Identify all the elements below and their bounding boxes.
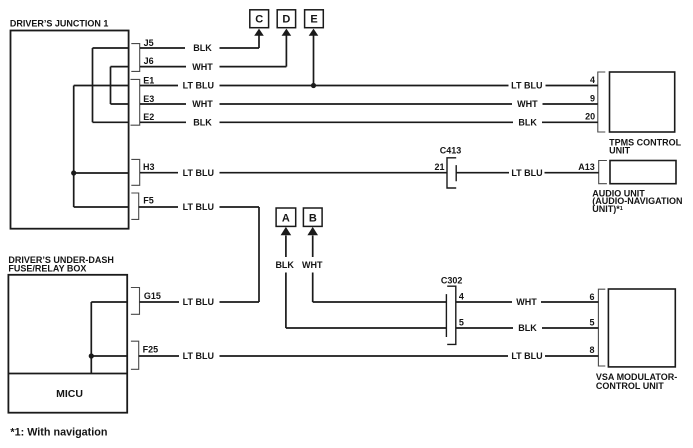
svg-text:F25: F25 (143, 345, 159, 355)
wire C413 to audio A13 (456, 172, 599, 174)
bracket pin G15 (131, 288, 140, 315)
svg-text:UNIT)*1: UNIT)*1 (592, 204, 623, 214)
svg-text:LT BLU: LT BLU (183, 202, 214, 212)
connector box A (276, 208, 296, 226)
svg-text:C: C (255, 14, 263, 26)
wire C302 pin 4 WHT to VSA 6 (456, 301, 599, 303)
wire E3 WHT to TPMS 9 (140, 103, 598, 105)
svg-text:C413: C413 (440, 146, 462, 156)
svg-text:WHT: WHT (192, 99, 213, 109)
svg-text:BLK: BLK (518, 118, 537, 128)
bracket VSA pins (598, 289, 605, 366)
bracket TPMS pins (598, 72, 606, 132)
svg-text:WHT: WHT (302, 260, 323, 270)
wire E to junction on E1 (313, 35, 315, 86)
svg-text:4: 4 (459, 292, 464, 302)
svg-text:BLK: BLK (518, 323, 537, 333)
svg-text:UNIT: UNIT (609, 146, 630, 156)
svg-text:B: B (309, 212, 317, 224)
svg-text:LT BLU: LT BLU (511, 168, 542, 178)
svg-text:*1: With navigation: *1: With navigation (10, 426, 107, 438)
svg-text:LT BLU: LT BLU (183, 81, 214, 91)
svg-text:LT BLU: LT BLU (511, 81, 542, 91)
audio unit box (610, 161, 676, 184)
svg-text:5: 5 (589, 318, 594, 328)
bracket pins J5/J6 (131, 44, 139, 72)
svg-text:J5: J5 (144, 38, 154, 48)
arrowhead to A (281, 227, 292, 235)
svg-text:5: 5 (459, 317, 464, 327)
svg-text:LT BLU: LT BLU (183, 297, 214, 307)
svg-text:BLK: BLK (275, 260, 294, 270)
svg-text:CONTROL UNIT: CONTROL UNIT (596, 381, 664, 391)
bracket pins E1/E3/E2 (131, 79, 140, 125)
svg-text:F5: F5 (143, 196, 154, 206)
wire H3 LT BLU to C413 (140, 172, 447, 174)
VSA modulator-control unit box (608, 289, 675, 367)
arrowhead to B (307, 227, 318, 235)
wire A BLK to C302 pin 5 (286, 236, 447, 329)
svg-text:8: 8 (589, 345, 594, 355)
connector box D (277, 10, 295, 28)
TPMS control unit box (610, 72, 675, 132)
wire C302 pin 5 BLK to VSA 5 (456, 327, 599, 329)
svg-text:J6: J6 (144, 56, 154, 66)
arrowhead to E (309, 29, 319, 36)
junction dot on F25 internal wire (89, 353, 94, 358)
arrowhead to C (254, 29, 264, 36)
svg-text:DRIVER’S JUNCTION 1: DRIVER’S JUNCTION 1 (10, 19, 109, 29)
wire G15 LT BLU (140, 301, 260, 303)
svg-text:6: 6 (589, 292, 594, 302)
svg-text:20: 20 (585, 111, 595, 121)
wire F5 LT BLU down to G15 row (139, 207, 259, 302)
connector box B (303, 208, 322, 226)
fuse box DRIVER'S UNDER-DASH FUSE/RELAY BOX (8, 275, 127, 413)
bracket pin H3 (131, 159, 139, 185)
wire E1 LT BLU to TPMS 4 (140, 85, 598, 87)
wire F25 LT BLU to VSA 8 (139, 355, 599, 357)
svg-text:D: D (282, 14, 290, 26)
svg-text:LT BLU: LT BLU (511, 351, 542, 361)
wire J5-E2 internal vertical (93, 48, 129, 122)
connector box C (250, 10, 269, 28)
svg-text:E2: E2 (143, 112, 154, 122)
svg-text:MICU: MICU (56, 388, 83, 400)
wire J5 BLK to C (140, 35, 259, 48)
connector C302 (446, 286, 455, 344)
wire J6-E3 internal vertical (111, 67, 129, 104)
svg-text:A: A (282, 212, 290, 224)
bracket pin F25 (131, 341, 139, 369)
bracket pin F5 (131, 193, 138, 219)
connector C413 (447, 158, 456, 188)
connector box E (305, 10, 324, 28)
junction dot on H3 internal wire (71, 170, 76, 175)
arrowhead to D (282, 29, 292, 36)
svg-text:BLK: BLK (193, 43, 212, 53)
svg-text:C302: C302 (441, 275, 463, 285)
svg-text:BLK: BLK (193, 118, 212, 128)
wire E1-H3-F5 internal vertical (74, 86, 129, 208)
svg-text:LT BLU: LT BLU (183, 351, 214, 361)
svg-text:FUSE/RELAY BOX: FUSE/RELAY BOX (8, 263, 86, 273)
bracket audio unit pin A13 (599, 161, 607, 184)
svg-text:WHT: WHT (192, 62, 213, 72)
wire E2 BLK to TPMS 20 (140, 121, 598, 123)
svg-text:9: 9 (590, 93, 595, 103)
svg-text:WHT: WHT (516, 297, 537, 307)
svg-text:E1: E1 (143, 76, 154, 86)
junction dot on E1 wire (311, 83, 316, 88)
wire B WHT to C302 pin 4 (313, 236, 447, 303)
internal wires fuse box G15-F25-MICU (91, 302, 127, 374)
svg-text:H3: H3 (143, 162, 155, 172)
svg-text:A13: A13 (578, 162, 595, 172)
wire J6 WHT to D (140, 35, 286, 67)
svg-text:G15: G15 (144, 291, 161, 301)
MICU divider (8, 373, 127, 375)
svg-text:E3: E3 (143, 94, 154, 104)
svg-text:E: E (310, 14, 317, 26)
junction box DRIVER'S JUNCTION 1 (11, 31, 129, 229)
svg-text:21: 21 (434, 162, 444, 172)
svg-text:4: 4 (590, 75, 595, 85)
svg-text:LT BLU: LT BLU (183, 168, 214, 178)
svg-text:WHT: WHT (517, 99, 538, 109)
